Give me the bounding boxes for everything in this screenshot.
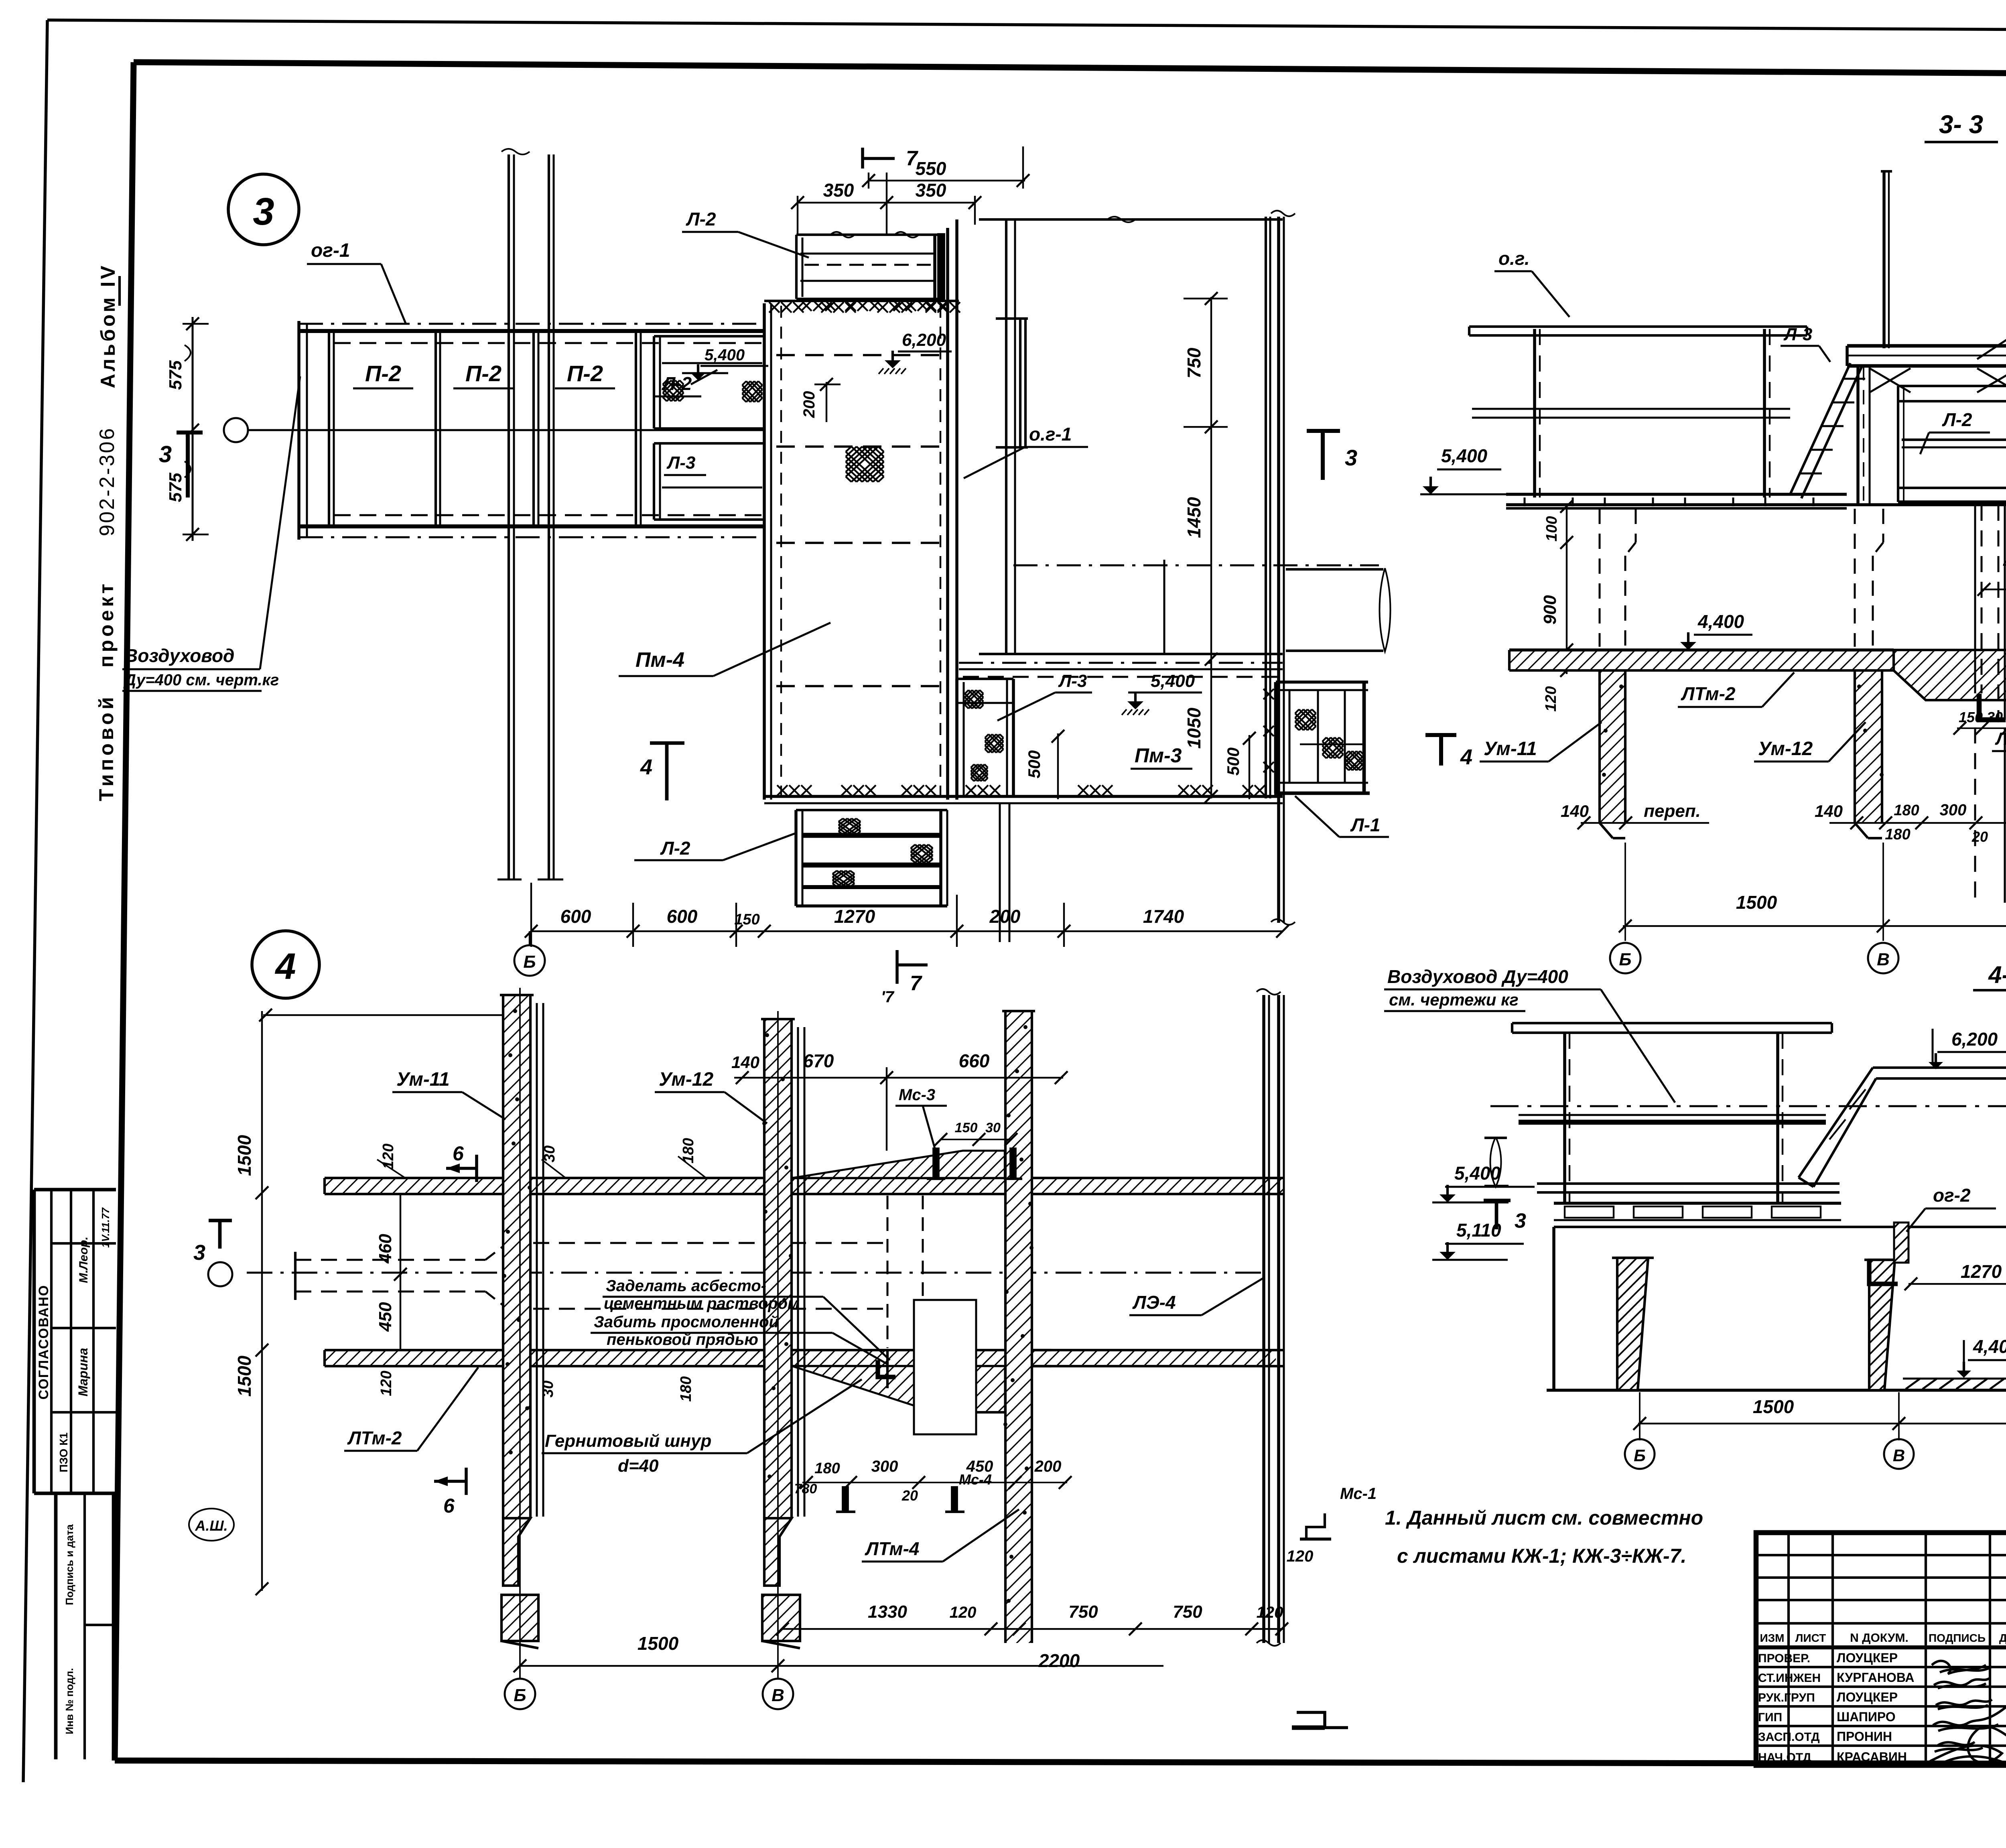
svg-text:3: 3	[1515, 1209, 1526, 1233]
svg-text:750: 750	[1184, 347, 1204, 378]
svg-text:Б: Б	[1619, 950, 1631, 969]
wall Ум-12	[761, 1019, 800, 1648]
stairs Л-3 sect3	[1790, 363, 1865, 498]
svg-text:5,400: 5,400	[1441, 445, 1488, 466]
svg-text:ЛТм-4: ЛТм-4	[865, 1538, 920, 1559]
level mark 5,400 in plan	[682, 346, 768, 384]
floor line 5.300 sect3	[1506, 503, 2006, 506]
section marker 3 sect4	[1484, 1200, 1526, 1233]
central block walls	[742, 219, 960, 803]
svg-text:Б: Б	[514, 1686, 526, 1705]
svg-text:1500: 1500	[1753, 1396, 1794, 1417]
svg-text:4- 4: 4- 4	[1988, 961, 2006, 988]
svg-text:30: 30	[985, 1120, 1001, 1135]
floor band 5.400 sect3	[1506, 494, 1847, 508]
section marker 7 top	[863, 147, 918, 170]
svg-text:660: 660	[959, 1050, 990, 1071]
svg-text:1V.11.77: 1V.11.77	[99, 1207, 112, 1248]
svg-text:Л-2: Л-2	[686, 209, 716, 229]
svg-text:1500: 1500	[234, 1135, 255, 1176]
node 3 plan channel walls	[248, 321, 764, 540]
svg-text:НАЧ.ОТД: НАЧ.ОТД	[1758, 1751, 1811, 1764]
section marker 3 node4	[193, 1220, 232, 1265]
svg-text:ИЗМ: ИЗМ	[1760, 1632, 1785, 1644]
label Л-3 in plan	[664, 453, 706, 475]
svg-text:100: 100	[1543, 516, 1560, 541]
svg-text:6: 6	[443, 1495, 455, 1517]
lower rails sect4	[1537, 1184, 1840, 1192]
label о.г. sect3	[1494, 248, 1569, 317]
svg-text:П-2: П-2	[465, 361, 501, 386]
axis chain sect4	[1490, 1105, 2006, 1107]
cell labels П-2	[353, 361, 701, 396]
label Л-2 sect3	[1920, 409, 1990, 454]
braces sect3	[1870, 368, 2006, 392]
svg-text:с листами КЖ-1; КЖ-3÷КЖ-7.: с листами КЖ-1; КЖ-3÷КЖ-7.	[1397, 1545, 1686, 1567]
grid bubbles sect3	[1610, 943, 1898, 973]
svg-text:450: 450	[376, 1302, 395, 1332]
note line 1	[1385, 1507, 1703, 1529]
signatures	[1930, 1661, 2006, 1769]
svg-text:4,400: 4,400	[1973, 1336, 2006, 1357]
small rotated dims node4 upper	[377, 1138, 706, 1178]
small boxes right of channel	[654, 336, 764, 520]
dims 500 500	[1025, 730, 1256, 799]
svg-text:пеньковой прядью: пеньковой прядью	[607, 1331, 758, 1348]
hood ПМ-4 sect4	[1799, 1068, 2006, 1188]
walls below floor dashed Ум-11 sect3	[1600, 509, 1636, 647]
section marker 4 mid	[640, 743, 684, 800]
dim 1270 200 sect4	[1904, 1070, 2006, 1290]
svg-text:550: 550	[916, 158, 946, 179]
label Воздуховод sect4	[1384, 966, 1675, 1103]
svg-text:СТ.ИНЖЕН: СТ.ИНЖЕН	[1758, 1671, 1821, 1685]
svg-text:В: В	[1893, 1446, 1905, 1465]
svg-text:350: 350	[916, 180, 946, 201]
svg-text:7: 7	[910, 972, 922, 995]
svg-text:1500: 1500	[638, 1633, 679, 1654]
svg-text:3: 3	[253, 190, 274, 233]
dimension 575/575	[166, 317, 209, 541]
svg-text:140: 140	[1561, 802, 1589, 820]
svg-text:200: 200	[989, 906, 1021, 927]
svg-text:П-2: П-2	[567, 361, 603, 386]
svg-text:575: 575	[166, 360, 185, 390]
svg-text:1. Данный лист см. совместно: 1. Данный лист см. совместно	[1385, 1507, 1703, 1529]
svg-text:см. чертежи кг: см. чертежи кг	[1389, 990, 1519, 1009]
bottom small dims node4	[794, 1458, 1072, 1504]
tank walls sect4	[1547, 1203, 2006, 1390]
svg-text:30: 30	[541, 1145, 558, 1162]
svg-text:5,400: 5,400	[1151, 671, 1195, 691]
heavy rails sect4	[1519, 1115, 2006, 1122]
ladder Л-1 box	[1263, 682, 1370, 793]
node4 top dim line	[234, 1009, 526, 1595]
svg-text:5,400: 5,400	[1454, 1163, 1501, 1184]
central trench node4	[878, 1196, 923, 1388]
level 4,400 sect4	[1957, 1336, 2006, 1378]
label ЛЭ-4 node4	[1129, 1278, 1263, 1315]
label ЛТм-4 node4	[862, 1509, 1019, 1562]
sidebar text Альбом IV	[97, 263, 120, 388]
svg-text:3: 3	[159, 441, 172, 467]
section 3-3 title	[1925, 110, 1998, 142]
svg-text:3: 3	[1345, 445, 1357, 470]
svg-text:ЛЭ-4: ЛЭ-4	[1132, 1292, 1176, 1313]
label Л-2 upper box	[682, 209, 809, 258]
grid bubble Б node3	[514, 931, 545, 976]
wall Ум-11 jacket	[537, 1003, 543, 1517]
svg-text:Л-3: Л-3	[666, 453, 695, 473]
svg-text:КУРГАНОВА: КУРГАНОВА	[1837, 1670, 1914, 1685]
svg-text:200: 200	[800, 391, 818, 418]
labels Ум-11 Ум-12 sect3	[1480, 722, 1866, 762]
node4 slab bottom band	[325, 1350, 1051, 1366]
svg-text:ЛТм-2: ЛТм-2	[347, 1428, 402, 1448]
svg-text:РУК.ГРУП: РУК.ГРУП	[1758, 1691, 1815, 1704]
slab 4.400 hatched sect3	[1509, 650, 2006, 700]
svg-text:450: 450	[2003, 553, 2006, 572]
svg-text:Воздуховод: Воздуховод	[124, 645, 234, 666]
tall posts ог-1 sect3	[1881, 171, 2006, 497]
svg-text:Л-3: Л-3	[1058, 671, 1087, 691]
svg-text:Л-2: Л-2	[660, 838, 690, 859]
svg-text:N ДОКУМ.: N ДОКУМ.	[1850, 1631, 1909, 1645]
marker А.Ш oval	[189, 1509, 234, 1541]
label Л-3 sect3	[1781, 325, 1830, 362]
bottom dims node3	[525, 883, 1289, 947]
svg-text:20: 20	[1971, 829, 1988, 845]
svg-text:ог-1: ог-1	[311, 240, 350, 261]
svg-text:Альбом IV: Альбом IV	[97, 263, 119, 388]
title block grid	[1756, 1533, 2006, 1765]
svg-text:4: 4	[640, 755, 652, 779]
svg-text:В: В	[772, 1686, 784, 1705]
title block header texts	[1760, 1631, 2006, 1645]
sidebar text 902-2-306	[95, 426, 119, 536]
note Заделать асбесто	[591, 1277, 890, 1364]
svg-text:Ум-12: Ум-12	[1758, 738, 1813, 760]
label Ум-12 node4	[655, 1069, 767, 1123]
duct below node3	[1000, 803, 1009, 942]
svg-text:3- 3: 3- 3	[1939, 110, 1983, 139]
svg-text:180: 180	[814, 1460, 840, 1477]
svg-text:КРАСАВИН: КРАСАВИН	[1837, 1750, 1907, 1764]
svg-text:1330: 1330	[868, 1602, 907, 1622]
svg-text:150: 150	[1959, 709, 1983, 725]
svg-text:о.г-1: о.г-1	[1029, 424, 1072, 445]
svg-text:Б: Б	[1634, 1446, 1646, 1465]
svg-text:переп.: переп.	[1644, 801, 1701, 821]
svg-text:Типовой проект: Типовой проект	[95, 581, 118, 801]
platform legs sect3	[1858, 366, 2006, 505]
svg-text:Мс-1: Мс-1	[1340, 1485, 1377, 1503]
svg-text:600: 600	[560, 906, 591, 927]
wall Ум-12 jacket	[798, 1027, 804, 1517]
svg-text:180: 180	[678, 1376, 694, 1401]
svg-text:1050: 1050	[1184, 707, 1204, 749]
svg-text:120: 120	[1287, 1547, 1314, 1565]
floor bands sect4	[1554, 1203, 2006, 1220]
svg-text:Забить просмоленной: Забить просмоленной	[594, 1313, 779, 1331]
svg-text:ШАПИРО: ШАПИРО	[1837, 1710, 1896, 1724]
svg-text:Подпись и дата: Подпись и дата	[63, 1524, 75, 1605]
level mark 5,400 right	[1122, 671, 1202, 715]
grid line Б node4	[505, 988, 535, 1709]
svg-text:1500: 1500	[234, 1355, 255, 1397]
node4 slab right part	[1019, 1350, 1284, 1366]
svg-text:ЗАСП.ОТД: ЗАСП.ОТД	[1758, 1730, 1820, 1744]
central trench sect3	[1975, 505, 2006, 903]
svg-text:6: 6	[453, 1142, 464, 1165]
svg-text:1270: 1270	[1961, 1261, 2002, 1282]
dims 140 670 660	[731, 1050, 1068, 1151]
title block name rows	[1758, 1651, 1914, 1764]
svg-text:750: 750	[1173, 1602, 1202, 1622]
pier Б sect4	[1612, 1258, 1654, 1390]
dim 150 30 sect3	[1953, 709, 2006, 735]
svg-text:30: 30	[540, 1381, 556, 1397]
svg-text:ГИП: ГИП	[1758, 1711, 1782, 1724]
svg-text:450: 450	[966, 1458, 993, 1475]
grid bubbles sect4	[1625, 1439, 1914, 1469]
dims 460 450 node4	[376, 1194, 407, 1350]
svg-text:300: 300	[1940, 801, 1967, 819]
right tank plan walls	[959, 211, 1379, 925]
dim 350 350 over box	[791, 173, 981, 235]
svg-text:575: 575	[166, 473, 185, 502]
svg-text:ПОДПИСЬ: ПОДПИСЬ	[1929, 1632, 1986, 1644]
svg-text:4,400: 4,400	[1697, 611, 1744, 632]
svg-text:ПРОВЕР.: ПРОВЕР.	[1758, 1652, 1810, 1665]
svg-text:900: 900	[1540, 595, 1560, 625]
axis node circle node4	[208, 1262, 232, 1286]
svg-text:750: 750	[1068, 1602, 1098, 1622]
svg-text:ЛОУЦКЕР: ЛОУЦКЕР	[1837, 1651, 1898, 1665]
svg-text:Ум-11: Ум-11	[1484, 738, 1537, 760]
level 6,200 sect4	[1929, 1029, 2006, 1069]
dim 450 200 sect3	[1978, 553, 2006, 596]
svg-text:180: 180	[1885, 826, 1910, 843]
node4 slab top band	[325, 1178, 1284, 1194]
level 5,400 sect4	[1432, 1163, 2006, 1202]
bottom dims sect3	[1561, 796, 2006, 845]
section marker 3 right	[1307, 431, 1357, 480]
box Л-2 sect3	[1898, 386, 2006, 502]
svg-text:670: 670	[803, 1050, 834, 1071]
walls below floor dashed Ум-12 sect3	[1855, 509, 1883, 647]
label ПМ-4 sect3	[1977, 251, 2006, 359]
section marker 6 upper	[446, 1142, 477, 1182]
svg-text:Марина: Марина	[76, 1348, 90, 1396]
dim 550 over box	[862, 146, 1029, 189]
pipe break left sect4	[1484, 1137, 1509, 1187]
left railing sect4	[1512, 1023, 1832, 1204]
pier В sect4	[1864, 1260, 1900, 1390]
section marker 7 bottom	[881, 950, 928, 1006]
dim column 750/1450/1050	[1184, 292, 1228, 803]
label Мс-1 small node4	[1300, 1485, 1377, 1539]
label ог-1 right	[964, 424, 1088, 478]
svg-text:ПЗО К1: ПЗО К1	[57, 1432, 70, 1472]
pit floor hachure sect4	[1903, 1379, 2006, 1389]
node4 corner blocks hatched	[792, 1151, 1005, 1412]
label Мс-4 and bracket	[836, 1471, 992, 1512]
svg-text:120: 120	[950, 1604, 977, 1621]
svg-text:460: 460	[376, 1234, 395, 1264]
ог-2 post sect4	[1869, 1223, 1909, 1284]
svg-text:120: 120	[378, 1371, 395, 1396]
svg-text:Гернитовый шнур: Гернитовый шнур	[545, 1431, 711, 1451]
label ог-2 sect4	[1907, 1185, 1996, 1232]
svg-text:1500: 1500	[1736, 892, 1777, 913]
svg-text:Заделать асбесто-: Заделать асбесто-	[606, 1277, 766, 1295]
label ЛТм-2 sect3	[1678, 672, 1794, 707]
label Пм-3	[1131, 744, 1192, 769]
level 5,400 sect3	[1420, 445, 1506, 494]
svg-text:120: 120	[1257, 1604, 1283, 1621]
svg-text:Воздуховод Ду=400: Воздуховод Ду=400	[1387, 966, 1568, 987]
bottom dim 1500 2200 sect4	[1633, 1392, 2006, 1440]
platform beam 6.200 sect3	[1847, 346, 2006, 366]
svg-text:СОГЛАСОВАНО: СОГЛАСОВАНО	[36, 1285, 51, 1400]
svg-text:150: 150	[734, 911, 759, 928]
label Мс-3 and posts	[895, 1086, 1022, 1179]
svg-text:2200: 2200	[1038, 1650, 1080, 1671]
label Л-1	[1295, 796, 1389, 837]
label Л-2 lower	[634, 833, 796, 860]
inventory table	[56, 1493, 114, 1759]
left railing sect3	[1469, 327, 1807, 498]
svg-text:1270: 1270	[834, 906, 875, 927]
dims 100 900 120 left sect3	[1540, 500, 1573, 712]
svg-text:Ум-12: Ум-12	[659, 1069, 714, 1090]
svg-text:А.Ш.: А.Ш.	[195, 1517, 227, 1534]
svg-text:М.Леор.: М.Леор.	[77, 1237, 90, 1283]
svg-text:140: 140	[731, 1053, 759, 1072]
svg-text:′7: ′7	[881, 988, 895, 1006]
svg-text:6,200: 6,200	[1951, 1029, 1998, 1050]
svg-text:200: 200	[1034, 1458, 1062, 1475]
svg-text:300: 300	[871, 1458, 898, 1475]
svg-text:120: 120	[380, 1143, 397, 1169]
sidebar text Типовой проект	[95, 581, 118, 801]
svg-text:3: 3	[193, 1241, 205, 1265]
label Ум-11 node4	[392, 1069, 506, 1119]
label ЛТм-2 node4	[344, 1367, 478, 1451]
upper box Л-2 with dims	[796, 232, 948, 311]
section marker 6 lower	[434, 1468, 466, 1517]
svg-text:140: 140	[1815, 802, 1843, 820]
svg-text:В: В	[1877, 950, 1890, 969]
svg-text:ЛОУЦКЕР: ЛОУЦКЕР	[1837, 1690, 1898, 1704]
note Гернитовый шнур	[542, 1379, 862, 1476]
label Воздуховод	[122, 376, 300, 691]
approval table	[34, 1190, 116, 1493]
wall Ум-11 hatched sect3	[1589, 670, 1628, 847]
third wall node4	[1002, 1011, 1035, 1643]
slab opening white box	[914, 1300, 976, 1434]
axis node circle plan3	[224, 418, 248, 442]
svg-text:ЛТм-2: ЛТм-2	[1681, 683, 1736, 704]
svg-text:Ум-11: Ум-11	[396, 1069, 450, 1090]
ог-1 bar in plan	[996, 319, 1028, 447]
bottom dim 1500 2200 sect3	[1619, 843, 2006, 941]
svg-text:ДАТА: ДАТА	[1999, 1632, 2006, 1644]
svg-text:Пм-3: Пм-3	[1135, 744, 1182, 767]
Мс-1 step detail left	[1287, 1547, 1348, 1728]
wall Ум-11	[500, 995, 538, 1648]
svg-text:Л-3: Л-3	[1783, 325, 1812, 344]
label ЛТм-4 sect3	[1992, 729, 2006, 751]
level mark 6,200 in block	[879, 330, 952, 374]
svg-text:ЛИСТ: ЛИСТ	[1795, 1632, 1826, 1644]
node4 axis and pipe dashed	[247, 1243, 1264, 1309]
svg-text:Мс-3: Мс-3	[899, 1086, 935, 1104]
node 3 detail circle	[228, 174, 299, 245]
svg-text:30: 30	[1987, 709, 2003, 725]
svg-text:Л-2: Л-2	[1942, 409, 1972, 430]
grid line В node4	[763, 1011, 793, 1709]
svg-text:ПРОНИН: ПРОНИН	[1837, 1729, 1892, 1744]
node4 bottom dims 1330 120 750 750 120	[776, 1602, 1288, 1671]
label ПМ-4 with leader	[619, 623, 830, 676]
svg-text:Л-1: Л-1	[1350, 814, 1381, 835]
svg-text:4: 4	[1460, 745, 1472, 769]
small rotated dims node4 lower	[378, 1371, 694, 1401]
svg-text:780: 780	[794, 1481, 817, 1497]
svg-text:ог-2: ог-2	[1933, 1185, 1971, 1206]
lower box Л-2 of node3	[796, 810, 947, 906]
section marker 3 left	[159, 433, 203, 498]
svg-text:500: 500	[1025, 750, 1044, 778]
level 4,400 sect3 left	[1680, 611, 1752, 650]
svg-text:1740: 1740	[1143, 906, 1184, 927]
svg-text:902-2-306: 902-2-306	[95, 426, 119, 536]
svg-text:180: 180	[1894, 802, 1919, 819]
svg-text:5,400: 5,400	[705, 346, 745, 364]
svg-text:350: 350	[823, 180, 854, 201]
note line 2	[1397, 1545, 1686, 1567]
svg-text:ЛТм-4: ЛТм-4	[1995, 729, 2006, 749]
svg-text:4: 4	[274, 946, 296, 987]
svg-text:500: 500	[1224, 747, 1243, 776]
svg-text:6,200: 6,200	[902, 330, 946, 350]
svg-text:Пм-4: Пм-4	[636, 648, 684, 672]
svg-text:120: 120	[1543, 686, 1559, 711]
lower middle box node3	[957, 679, 1013, 796]
svg-text:Б: Б	[523, 952, 536, 972]
label Л-3 right	[997, 671, 1092, 721]
dim 200 in block	[800, 378, 841, 422]
svg-text:150: 150	[955, 1120, 978, 1135]
svg-text:П-2: П-2	[365, 361, 401, 386]
svg-text:5,110: 5,110	[1456, 1220, 1501, 1241]
level 5,110 sect4	[1432, 1220, 1524, 1260]
svg-text:d=40: d=40	[618, 1456, 659, 1476]
section marker 4 sect3	[1425, 735, 1472, 769]
svg-text:1450: 1450	[1184, 497, 1204, 538]
node4 bottom dim 1500	[514, 1633, 784, 1672]
right double wall node4	[1257, 989, 1284, 1646]
label ог-1	[307, 240, 406, 324]
node 4 detail circle	[252, 931, 319, 998]
svg-text:20: 20	[901, 1487, 918, 1504]
svg-text:Ду=400 см. черт.кг: Ду=400 см. черт.кг	[123, 671, 279, 689]
svg-text:цементным раствором: цементным раствором	[604, 1295, 800, 1312]
svg-text:о.г.: о.г.	[1498, 248, 1530, 269]
svg-text:Инв № подл.: Инв № подл.	[63, 1668, 75, 1734]
